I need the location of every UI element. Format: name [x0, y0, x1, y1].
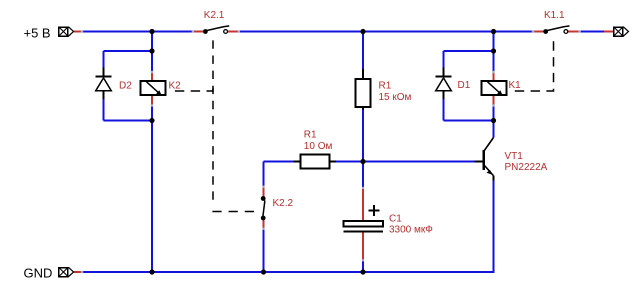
- svg-text:3300 мкФ: 3300 мкФ: [389, 225, 433, 236]
- svg-text:15 кОм: 15 кОм: [379, 92, 412, 103]
- svg-text:C1: C1: [389, 214, 402, 225]
- svg-text:GND: GND: [24, 265, 53, 280]
- svg-text:PN2222A: PN2222A: [505, 162, 548, 173]
- svg-text:VT1: VT1: [505, 151, 524, 162]
- svg-text:D2: D2: [119, 81, 132, 92]
- svg-text:R1: R1: [304, 130, 317, 141]
- svg-text:R1: R1: [379, 81, 392, 92]
- svg-text:K2.2: K2.2: [273, 198, 294, 209]
- svg-text:D1: D1: [458, 80, 471, 91]
- svg-text:10 Ом: 10 Ом: [304, 141, 333, 152]
- svg-text:+5 В: +5 В: [24, 26, 51, 41]
- svg-text:K2: K2: [169, 81, 182, 92]
- svg-text:K1.1: K1.1: [544, 10, 565, 21]
- svg-text:K1: K1: [509, 80, 522, 91]
- svg-text:K2.1: K2.1: [204, 10, 225, 21]
